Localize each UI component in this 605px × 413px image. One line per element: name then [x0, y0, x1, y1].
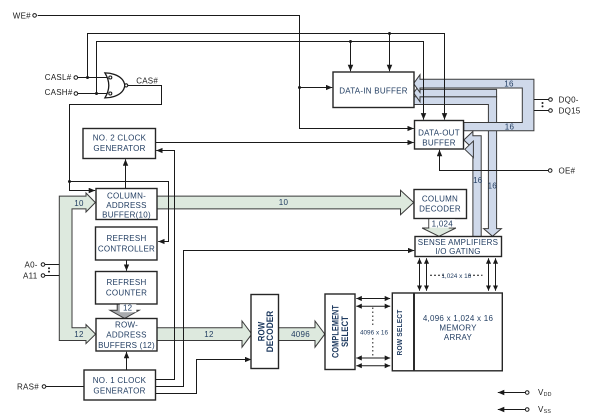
- svg-text:A0-: A0-: [25, 260, 38, 269]
- svg-text:ARRAY: ARRAY: [444, 333, 473, 342]
- svg-text:DECODER: DECODER: [264, 311, 275, 353]
- svg-text:12: 12: [123, 303, 133, 312]
- svg-text:4096: 4096: [291, 330, 310, 339]
- svg-text:DATA-IN BUFFER: DATA-IN BUFFER: [339, 87, 408, 96]
- svg-text:DATA-OUT: DATA-OUT: [418, 128, 460, 137]
- svg-text:I/O GATING: I/O GATING: [435, 247, 480, 256]
- svg-text:DQ15: DQ15: [559, 107, 581, 116]
- svg-text:GENERATOR: GENERATOR: [93, 387, 145, 396]
- svg-text:CASH#: CASH#: [45, 88, 73, 97]
- svg-text:RAS#: RAS#: [17, 382, 39, 391]
- svg-text:OE#: OE#: [559, 166, 576, 175]
- svg-text:COUNTER: COUNTER: [106, 289, 147, 298]
- svg-text:1,024: 1,024: [432, 219, 454, 228]
- svg-text:16: 16: [488, 182, 498, 191]
- svg-text:16: 16: [473, 176, 483, 185]
- svg-text:REFRESH: REFRESH: [107, 278, 147, 287]
- svg-text:12: 12: [74, 330, 84, 339]
- svg-text:BUFFER: BUFFER: [422, 138, 456, 147]
- svg-text:DQ0-: DQ0-: [559, 95, 579, 104]
- svg-text:SELECT: SELECT: [339, 316, 350, 347]
- svg-text:REFRESH: REFRESH: [107, 234, 147, 243]
- svg-text:CASL#: CASL#: [45, 73, 72, 82]
- svg-text:WE#: WE#: [13, 11, 31, 20]
- svg-text:ROW-: ROW-: [115, 321, 138, 330]
- svg-text:10: 10: [74, 199, 84, 208]
- svg-text:ROW SELECT: ROW SELECT: [395, 309, 404, 355]
- svg-text:COLUMN-: COLUMN-: [107, 192, 146, 201]
- svg-text:12: 12: [204, 330, 214, 339]
- svg-text:16: 16: [504, 79, 514, 88]
- svg-text:A11: A11: [23, 271, 38, 280]
- svg-text:4096 x 16: 4096 x 16: [360, 330, 389, 337]
- svg-text:NO. 2 CLOCK: NO. 2 CLOCK: [93, 134, 147, 143]
- svg-text:4,096 x 1,024 x 16: 4,096 x 1,024 x 16: [423, 314, 494, 323]
- svg-text:MEMORY: MEMORY: [439, 324, 477, 333]
- svg-text:1,024 x 16: 1,024 x 16: [441, 273, 471, 280]
- svg-text:BUFFER(10): BUFFER(10): [102, 211, 151, 220]
- svg-text:16: 16: [505, 122, 515, 131]
- svg-text:BUFFERS (12): BUFFERS (12): [98, 341, 155, 350]
- svg-text:CONTROLLER: CONTROLLER: [98, 245, 155, 254]
- svg-text:ADDRESS: ADDRESS: [106, 331, 146, 340]
- svg-text:CAS#: CAS#: [136, 76, 158, 85]
- svg-text:SENSE AMPLIFIERS: SENSE AMPLIFIERS: [418, 238, 498, 247]
- svg-text:10: 10: [279, 198, 289, 207]
- svg-text:DECODER: DECODER: [419, 205, 461, 214]
- svg-text:GENERATOR: GENERATOR: [93, 144, 145, 153]
- svg-text:NO. 1 CLOCK: NO. 1 CLOCK: [93, 376, 147, 385]
- svg-text:COLUMN: COLUMN: [422, 194, 458, 203]
- svg-text:ADDRESS: ADDRESS: [106, 201, 146, 210]
